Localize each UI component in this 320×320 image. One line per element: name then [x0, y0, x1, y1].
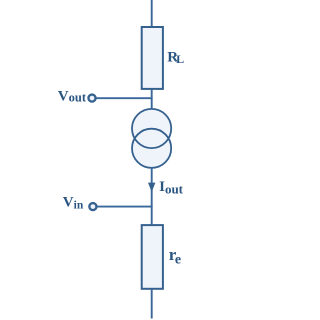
wire top feed [151, 0, 153, 27]
wire Vout horizontal [96, 97, 152, 99]
svg-text:Vout: Vout [58, 88, 87, 104]
svg-text:re: re [169, 245, 181, 267]
resistor re [142, 225, 163, 289]
resistor RL [142, 27, 163, 89]
wire RL to current source [151, 89, 153, 110]
wire current source to re [151, 168, 153, 225]
wire Vin horizontal [97, 206, 152, 208]
wire bottom [151, 289, 153, 319]
terminal Vin [89, 203, 96, 210]
arrow Iout [148, 183, 155, 192]
current source U1 [132, 109, 171, 168]
svg-text:Vin: Vin [63, 195, 84, 212]
terminal Vout [88, 95, 95, 102]
svg-text:Iout: Iout [159, 179, 184, 197]
svg-text:RL: RL [167, 50, 184, 66]
